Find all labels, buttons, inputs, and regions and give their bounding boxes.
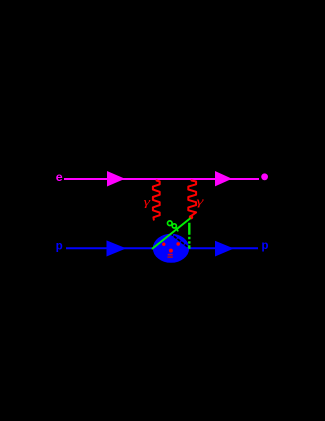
blob face: right eye: [176, 242, 180, 246]
blob face: mouth upper bar: [168, 254, 173, 256]
proton line (bottom, blue): [66, 247, 258, 249]
svg-text:e: e: [56, 171, 63, 185]
blob face: mouth lower bar: [168, 256, 173, 258]
node: scattered electron endpoint dot: [261, 173, 268, 180]
green squiggle label q: [168, 221, 173, 226]
green diagonal line (intermediate state): [153, 219, 191, 249]
svg-text:p: p: [261, 239, 268, 253]
electron line (top, magenta): [64, 178, 259, 180]
green squiggle tail: [176, 228, 178, 231]
svg-text:γ: γ: [196, 194, 203, 208]
arrowhead on electron line (right): [215, 171, 232, 186]
dashed internal line inside blob (black dotted): [171, 234, 188, 247]
proton blob (hadronic blob with face): [153, 234, 189, 263]
arrowhead on electron line (left): [107, 171, 125, 187]
svg-text:γ: γ: [144, 194, 151, 208]
arrowhead on proton line (left): [107, 240, 127, 256]
svg-text:p: p: [56, 239, 63, 253]
vertex dot at photon 2 bottom: [189, 215, 193, 219]
blob face: nose: [169, 249, 173, 253]
blob face: left eye: [162, 243, 165, 246]
green dash-dot vertical line: [188, 223, 190, 249]
photon 2 (right, red wavy): [188, 181, 196, 217]
green squiggle second loop: [172, 224, 176, 228]
photon 1 (left, red wavy): [153, 181, 160, 220]
arrowhead on proton line (right): [215, 241, 234, 257]
